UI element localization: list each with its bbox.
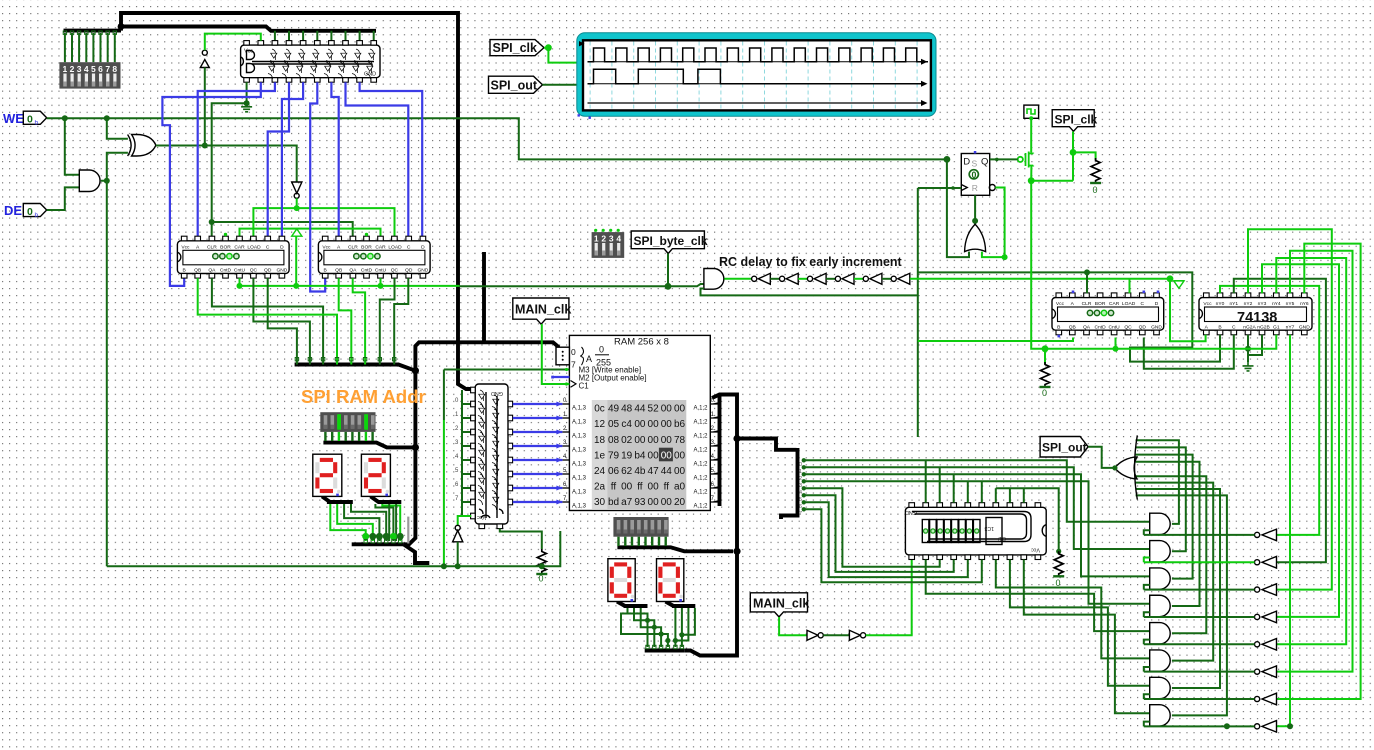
node blue dp dot display D2 — [385, 494, 388, 497]
svg-text:93: 93 — [634, 497, 646, 508]
wire FF Q to transistor gate — [990, 158, 1018, 160]
bus splitter bar below 7-segment pair 0 0 — [645, 649, 685, 653]
wire inverter A output to IC pin 2 — [205, 34, 261, 51]
svg-text:C1: C1 — [579, 382, 590, 391]
svg-text:48: 48 — [621, 404, 633, 415]
wire QD3 to 74138 C — [1144, 335, 1234, 369]
node at 668,286.3 — [665, 283, 672, 290]
svg-text:2: 2 — [70, 64, 75, 74]
counter U3 74193 — [318, 236, 430, 278]
svg-text:b: b — [35, 212, 39, 219]
wire g2 output riser to OR input — [1136, 447, 1186, 551]
svg-text:A,1,3: A,1,3 — [572, 420, 587, 426]
svg-text:A,1,3: A,1,3 — [572, 406, 587, 412]
svg-text:3: 3 — [799, 483, 802, 489]
LEDs counter U2 — [213, 254, 239, 259]
counter U2 74193 — [177, 236, 289, 278]
inverter chain E1 — [752, 276, 757, 281]
wire M3 write enable input — [444, 369, 570, 371]
resistor R1 — [1090, 158, 1101, 183]
wire SPI_clk to scope — [544, 48, 577, 63]
wire taps from top splitter down to buffer IC pins — [275, 31, 374, 41]
wire FF clock input from left vertical — [918, 187, 962, 189]
svg-text:5: 5 — [799, 497, 802, 503]
inverter H4 — [1255, 614, 1260, 619]
wire DIP switch outputs to splitter — [65, 33, 115, 62]
bus branch to byte splitter — [737, 439, 797, 450]
wire QA2 to splitter tap6 — [353, 278, 365, 364]
svg-text:4: 4 — [616, 234, 621, 244]
scope channel 2 data waveform — [588, 69, 922, 84]
RAM left pins — [562, 404, 569, 502]
node at 106.8,118.3 — [104, 115, 110, 121]
wire bottom pin2 down to gate4 riser — [926, 560, 1150, 632]
svg-text:4b: 4b — [634, 466, 646, 477]
node at 1087,272.4 — [1084, 269, 1090, 275]
svg-text:00: 00 — [621, 482, 633, 493]
bus splitter bar below display 2 A — [327, 500, 353, 504]
svg-text:SPI_byte_clk: SPI_byte_clk — [634, 234, 708, 248]
wire nY5 nest — [1277, 251, 1353, 672]
scope channel 3 baseline — [588, 102, 922, 104]
svg-text:SPI_out: SPI_out — [491, 79, 538, 93]
svg-text:7: 7 — [571, 360, 576, 370]
node blue dots unconnected counter U6 pins — [1072, 291, 1075, 294]
node at 1031.2,180.7 — [1028, 177, 1035, 184]
wire inverter H6 output row — [1144, 671, 1255, 673]
svg-text:00: 00 — [674, 466, 686, 477]
wire bundle display D1 staircase 3 — [344, 504, 379, 541]
svg-text:00: 00 — [648, 450, 660, 461]
wire bundle display D1 staircase 4 — [351, 504, 386, 541]
wire top pin4 up to fan line3 — [953, 474, 955, 502]
driver G-A on CAR net — [291, 229, 302, 237]
bus splitter bar below display 0 A — [624, 604, 648, 608]
svg-text:20: 20 — [674, 497, 686, 508]
wire long bright clock net to G1 — [1031, 181, 1276, 349]
wire M3 net vertical — [443, 370, 445, 421]
splitter taps byte fan — [802, 458, 806, 511]
wire g5 output riser to OR input — [1136, 476, 1207, 633]
svg-text:00: 00 — [674, 404, 686, 415]
svg-text:52: 52 — [648, 404, 660, 415]
LED bar B housing — [320, 412, 375, 432]
svg-text:00: 00 — [648, 435, 660, 446]
svg-text:b6: b6 — [674, 419, 686, 430]
node bus junction at 737,551.3 — [733, 548, 740, 555]
svg-text:7: 7 — [799, 511, 802, 517]
node at 548.4,47.7 — [545, 44, 552, 51]
bus splitter bar below SPI RAM Addr LED bar — [323, 443, 414, 448]
wire MAIN_clk B to inverter D1 — [779, 617, 807, 635]
node at 296.7,208.1 — [294, 205, 300, 211]
wire g7 output riser to OR input — [1136, 489, 1220, 688]
svg-text:C: C — [1232, 324, 1236, 330]
wire SPI_clk B down to node — [1072, 132, 1074, 181]
wire long bright net y=285.9 left part — [240, 285, 460, 287]
pin squares on DIP wires — [63, 31, 116, 34]
wire transistor drain to node — [1030, 153, 1032, 181]
node at 1290,726.3 — [1287, 723, 1293, 729]
svg-text:3: 3 — [77, 64, 82, 74]
wire inverter H4 output row — [1144, 616, 1255, 618]
wire nY4 nest — [1276, 258, 1346, 644]
wire QB3 down to bright net — [918, 338, 1073, 342]
counter U6 74193 — [1052, 293, 1164, 335]
svg-text:00: 00 — [661, 450, 673, 461]
svg-text:RC delay to fix early incremen: RC delay to fix early increment — [719, 255, 903, 269]
inverter H5 — [1255, 642, 1260, 647]
wire left vertical x917.8 down — [917, 188, 919, 437]
inverter H8 — [1255, 724, 1260, 729]
node at 204.8,145.5 — [202, 143, 208, 149]
svg-text:0: 0 — [539, 574, 544, 584]
svg-text:0: 0 — [1093, 185, 1098, 195]
svg-text:00: 00 — [634, 435, 646, 446]
wire blue IC pin5 to counter1 D — [282, 82, 303, 236]
inverter chain E3 — [807, 276, 812, 281]
RAM right pins — [710, 402, 719, 502]
DIP switch S2 (4 switches) — [592, 229, 625, 258]
bus vertical through SPI RAM Addr column — [403, 371, 415, 545]
wire bottom pin7 down right — [996, 560, 1150, 659]
7-segment display D4 digit 0 — [657, 559, 684, 602]
wire IC pin1 to ground — [246, 82, 248, 103]
wire WE long run to flip-flop D — [47, 118, 947, 159]
svg-text:8: 8 — [112, 64, 117, 74]
LED bar C housing all off — [613, 517, 668, 537]
transistor Q1 PMOS — [1018, 152, 1033, 168]
wire blue IC pin3 to counter1 A — [198, 82, 275, 236]
bus from RAM right side down to fan splitter — [684, 395, 737, 656]
wire D2 output to shift IC pin1 — [866, 560, 912, 636]
wire top pin3 up to fan line2 — [939, 467, 941, 502]
svg-text:nG2B: nG2B — [1257, 324, 1270, 330]
svg-text:02: 02 — [621, 435, 633, 446]
svg-text:a7: a7 — [621, 497, 633, 508]
svg-text:08: 08 — [608, 435, 620, 446]
wire fan line 2 long — [804, 467, 1150, 549]
svg-text:nY2: nY2 — [1244, 301, 1253, 307]
svg-text:A,1,3: A,1,3 — [572, 462, 587, 468]
svg-text:SPI_out: SPI_out — [1042, 441, 1087, 455]
svg-text:3: 3 — [609, 234, 614, 244]
node blue dp dot display D1 — [336, 494, 339, 497]
svg-text:6: 6 — [98, 64, 103, 74]
svg-text:SPI_clk: SPI_clk — [493, 41, 538, 55]
inverter chain E4 — [835, 276, 840, 281]
node at 239.5,285.9 — [237, 283, 243, 289]
wire node to resistor R1 — [1073, 152, 1096, 160]
7-segment display D3 digit 0 — [608, 559, 635, 602]
wire bundle display D4 vertical 3 — [675, 608, 689, 641]
wire top pin6 up stub — [981, 481, 983, 502]
svg-text:4: 4 — [799, 490, 802, 496]
svg-text:D: D — [963, 157, 970, 168]
svg-text:06: 06 — [608, 466, 620, 477]
svg-text:nG2A: nG2A — [1243, 324, 1256, 330]
svg-text:6: 6 — [799, 504, 802, 510]
7-segment display D1 digit 2 — [313, 454, 342, 496]
wire LOAD net to counter1 LOAD — [253, 208, 296, 236]
wire blue vertical IC outputs to RAM — [513, 404, 563, 502]
svg-text:00: 00 — [661, 419, 673, 430]
splitter bar for vertical IC — [461, 390, 463, 516]
RAM U4 body — [569, 335, 710, 510]
splitter tap squares below counters — [295, 358, 396, 361]
bus hooks from 7-segment displays 2 2 — [322, 496, 353, 502]
svg-text:74138: 74138 — [1237, 310, 1277, 326]
wire bundle display D2 vertical 3 — [388, 504, 390, 541]
svg-text:44: 44 — [634, 404, 646, 415]
node at 1115.5,348.8 — [1113, 346, 1119, 352]
wire inverter A input down to XOR output net — [204, 68, 206, 146]
wire blue IC pin2 to counter1 B — [162, 82, 260, 286]
svg-text:0: 0 — [27, 206, 33, 218]
wire g7 bottom hook from inverter row — [1144, 694, 1150, 699]
AND gate A1 — [79, 170, 100, 192]
wire SPI_byte_clk down to dark net — [667, 254, 669, 287]
wire M2 blue stub — [553, 376, 570, 378]
wire CLR3 net from left vertical — [918, 272, 1220, 361]
svg-text:1: 1 — [594, 234, 599, 244]
svg-text:00: 00 — [648, 419, 660, 430]
LEDs counter U3 — [354, 254, 380, 259]
svg-text:2: 2 — [601, 234, 606, 244]
wire bundle display D3 staircase 4 — [621, 614, 668, 648]
inverter D1 — [807, 630, 818, 640]
svg-text:G1: G1 — [1273, 324, 1280, 330]
node at 211.7,222 — [209, 219, 215, 225]
wire g8 output riser to OR input — [1136, 495, 1227, 715]
svg-text:A: A — [586, 354, 592, 364]
node at 1058.7,551.3 — [1056, 549, 1061, 554]
wire bundle display D4 vertical 2 — [681, 608, 683, 647]
bus vertical collector at RAM right pins — [718, 395, 722, 507]
svg-text:00: 00 — [648, 497, 660, 508]
svg-text:24: 24 — [594, 466, 606, 477]
wire QB1 to splitter tap4 — [198, 278, 337, 364]
svg-text:WE: WE — [3, 111, 24, 126]
splitter tap squares above bottom bar — [364, 540, 402, 543]
svg-text:62: 62 — [621, 466, 633, 477]
wire bottom-left pin to inverter C — [458, 516, 472, 525]
svg-text:DE: DE — [4, 203, 22, 218]
node at 541.8,566.2 — [539, 563, 545, 569]
wire bundle display D3 staircase 1 — [628, 608, 648, 647]
svg-text:A,1;2: A,1;2 — [693, 462, 708, 468]
splitter taps to vertical IC pins — [462, 404, 471, 516]
svg-text:A,1,3: A,1,3 — [572, 504, 587, 510]
svg-text:nY5: nY5 — [1286, 301, 1295, 307]
svg-text:18: 18 — [594, 435, 606, 446]
wire LOAD3 up to A-line — [1129, 279, 1131, 294]
wire CLR net to counter2 — [212, 222, 353, 236]
wire stubs below LED bar B — [325, 432, 372, 441]
node blue dp dot display D3 — [631, 599, 634, 602]
AND gate g6 — [1150, 650, 1171, 671]
svg-text:19: 19 — [621, 450, 633, 461]
wire nY6 nest — [1277, 244, 1361, 699]
node at 946.9,159.4 — [944, 156, 951, 163]
wire fan line 1 long — [804, 460, 1150, 521]
junction dots on bundle — [362, 533, 404, 540]
wire long dark net y=286.3 to AND gate F — [460, 284, 704, 286]
svg-text:00: 00 — [661, 497, 673, 508]
wire g1 bottom hook from inverter row — [1144, 530, 1150, 535]
wire vertical IC Vcc pin to resistor R2 — [500, 529, 542, 549]
svg-text:nY1: nY1 — [1229, 301, 1238, 307]
wire fan line 7 down around to bottom pin5 — [804, 502, 968, 577]
wire chain output long right — [910, 278, 1170, 280]
AND gate g4 — [1150, 595, 1171, 616]
wire blue IC pin6 to counter2 B — [310, 82, 325, 291]
svg-text:0: 0 — [27, 114, 33, 126]
svg-text:1e: 1e — [594, 450, 606, 461]
node at 443.9,566.2 — [441, 563, 447, 569]
wire bright down to 74138 A — [1170, 279, 1206, 342]
wire QD1 to splitter tap1 — [268, 278, 297, 364]
decoder U7 74138 — [1199, 293, 1312, 335]
bus hooks from 7-segment displays 0 0 — [617, 602, 647, 607]
wire QA1 to splitter tap3 — [212, 278, 323, 364]
LED bar B lit segments — [337, 414, 341, 430]
wire D1 to D2 — [823, 634, 849, 636]
wire g3 output riser to OR input — [1136, 455, 1193, 579]
node at 975.1,220.9 — [972, 218, 978, 224]
svg-text:RAM 256 x 8: RAM 256 x 8 — [614, 337, 669, 348]
AND gate F — [704, 269, 724, 290]
inverter H7 — [1255, 696, 1260, 701]
svg-text:12: 12 — [594, 419, 606, 430]
wire CntU3 stub to clock net — [1115, 338, 1117, 349]
AND gate g3 — [1150, 568, 1171, 589]
node at 1248,348.8 — [1245, 346, 1251, 352]
ground symbol below IC pin1 — [241, 103, 252, 112]
wire long bottom net — [107, 531, 561, 566]
DIP switch S1 (8 switches) — [59, 62, 120, 88]
wire g1 output riser to OR input — [1136, 440, 1179, 524]
bus splitter bar for RAM data byte — [781, 448, 798, 519]
inverter H2 — [1255, 560, 1260, 565]
wire nY7 down to row8 — [1277, 335, 1291, 727]
svg-text:ff: ff — [637, 482, 643, 493]
wire QD2 to splitter tap8 — [394, 278, 408, 364]
bus splitter bar below LED bar C — [617, 547, 733, 551]
wire inverter H2 output row — [1144, 561, 1255, 563]
svg-text:1: 1 — [799, 469, 802, 475]
node at 380.5,285.9 — [378, 283, 384, 289]
wire blue IC pin8 to counter2 C — [346, 82, 409, 236]
clock source CLK1 — [1024, 105, 1039, 118]
wire fan line 4 to pin stub — [804, 481, 1150, 603]
AND gate g7 — [1150, 677, 1171, 698]
wire nY3 nest — [1262, 264, 1339, 617]
svg-text:0: 0 — [972, 170, 977, 180]
svg-text:2a: 2a — [594, 482, 606, 493]
wire inverter B output to LOAD net — [296, 198, 298, 208]
node bus junction at 737,438.5 — [733, 435, 740, 442]
wire g2 bottom hook from inverter row — [1144, 558, 1150, 563]
D flip-flop FF1 — [961, 154, 995, 196]
svg-text:00: 00 — [661, 404, 673, 415]
wire SPI_out to scope — [543, 84, 577, 86]
bus branch to top buffer IC splitter — [121, 27, 376, 31]
bus splitter bar below counters — [295, 365, 416, 371]
svg-text:MAIN_clk: MAIN_clk — [515, 303, 571, 317]
wire top pin7 up stub — [995, 488, 997, 503]
wire CLR net from ground node — [212, 103, 247, 236]
svg-text:GND: GND — [491, 390, 503, 396]
svg-text:Q: Q — [981, 157, 988, 168]
AND gate g1 — [1150, 513, 1171, 534]
driver G-B on A net — [1173, 281, 1184, 289]
wire SPI_out B to OR J output — [1088, 447, 1115, 468]
wire DE to AND input2 — [47, 187, 80, 210]
svg-text:S: S — [972, 159, 978, 169]
buffer IC U5 vertical body — [475, 384, 508, 524]
wire g3 bottom hook from inverter row — [1144, 585, 1150, 590]
svg-text:0c: 0c — [594, 404, 605, 415]
wire nG2A nG2B to ground — [1248, 335, 1262, 363]
svg-text:00: 00 — [661, 435, 673, 446]
svg-text:A,1;2: A,1;2 — [693, 434, 708, 440]
LEDs counter U6 — [1087, 310, 1113, 315]
inverter B pointing down — [292, 182, 302, 193]
tunnel label MAIN_clk B — [750, 593, 807, 617]
resistor R4 — [1053, 551, 1064, 576]
wire CntU2 stub to bright net — [380, 278, 382, 286]
node at 1226.9,726.3 — [1224, 723, 1230, 729]
AND gate g8 — [1150, 705, 1171, 726]
wire inverter C down to long net — [457, 542, 459, 566]
wire E3-E4 — [826, 278, 835, 280]
wire blue IC pin7 to counter2 A — [331, 82, 338, 236]
wire driver G-A output down to long bright net — [295, 236, 297, 286]
svg-text:00: 00 — [634, 419, 646, 430]
junction dots on bundle D3 D4 — [645, 618, 685, 643]
inverter chain E2 — [780, 276, 785, 281]
node at 1114.9,467.9 — [1112, 465, 1117, 470]
svg-text:A,1,3: A,1,3 — [572, 434, 587, 440]
wire WE to AND input1 — [65, 118, 80, 174]
svg-text:SPI RAM Addr: SPI RAM Addr — [301, 386, 426, 407]
svg-text:5: 5 — [91, 64, 96, 74]
7-segment display D2 digit 2 — [361, 454, 390, 496]
svg-text:00: 00 — [674, 450, 686, 461]
svg-text:c4: c4 — [621, 419, 632, 430]
svg-text:Vcc: Vcc — [1203, 301, 1212, 307]
wire top pin2 up to fan line1 — [925, 460, 927, 502]
wire CAR net counter1 to counter2 — [240, 229, 381, 237]
wire top pin5 up to fan line4 — [967, 481, 969, 502]
splitter tap squares above bottom 0 0 bar — [646, 645, 684, 648]
OR gate J 8-input mirrored — [1115, 457, 1137, 479]
wire bundle display D4 vertical 1 — [674, 608, 676, 647]
inverter chain E6 — [891, 276, 896, 281]
svg-text:49: 49 — [608, 404, 620, 415]
buffer IC U1 body — [241, 41, 380, 83]
wire LOAD net to counter2 LOAD — [297, 208, 395, 236]
node BOR counter1 unconnected dot — [224, 233, 227, 236]
wire bundle display D3 staircase 3 — [641, 608, 661, 647]
svg-text:nY7: nY7 — [1286, 324, 1295, 330]
wire bottom pin8 down to gate staircase — [1010, 560, 1150, 686]
svg-text:A,1,3: A,1,3 — [572, 490, 587, 496]
svg-text:4: 4 — [84, 64, 89, 74]
inverter A above gates — [200, 60, 209, 68]
wire top pin9 to resistor riser — [996, 488, 1059, 551]
